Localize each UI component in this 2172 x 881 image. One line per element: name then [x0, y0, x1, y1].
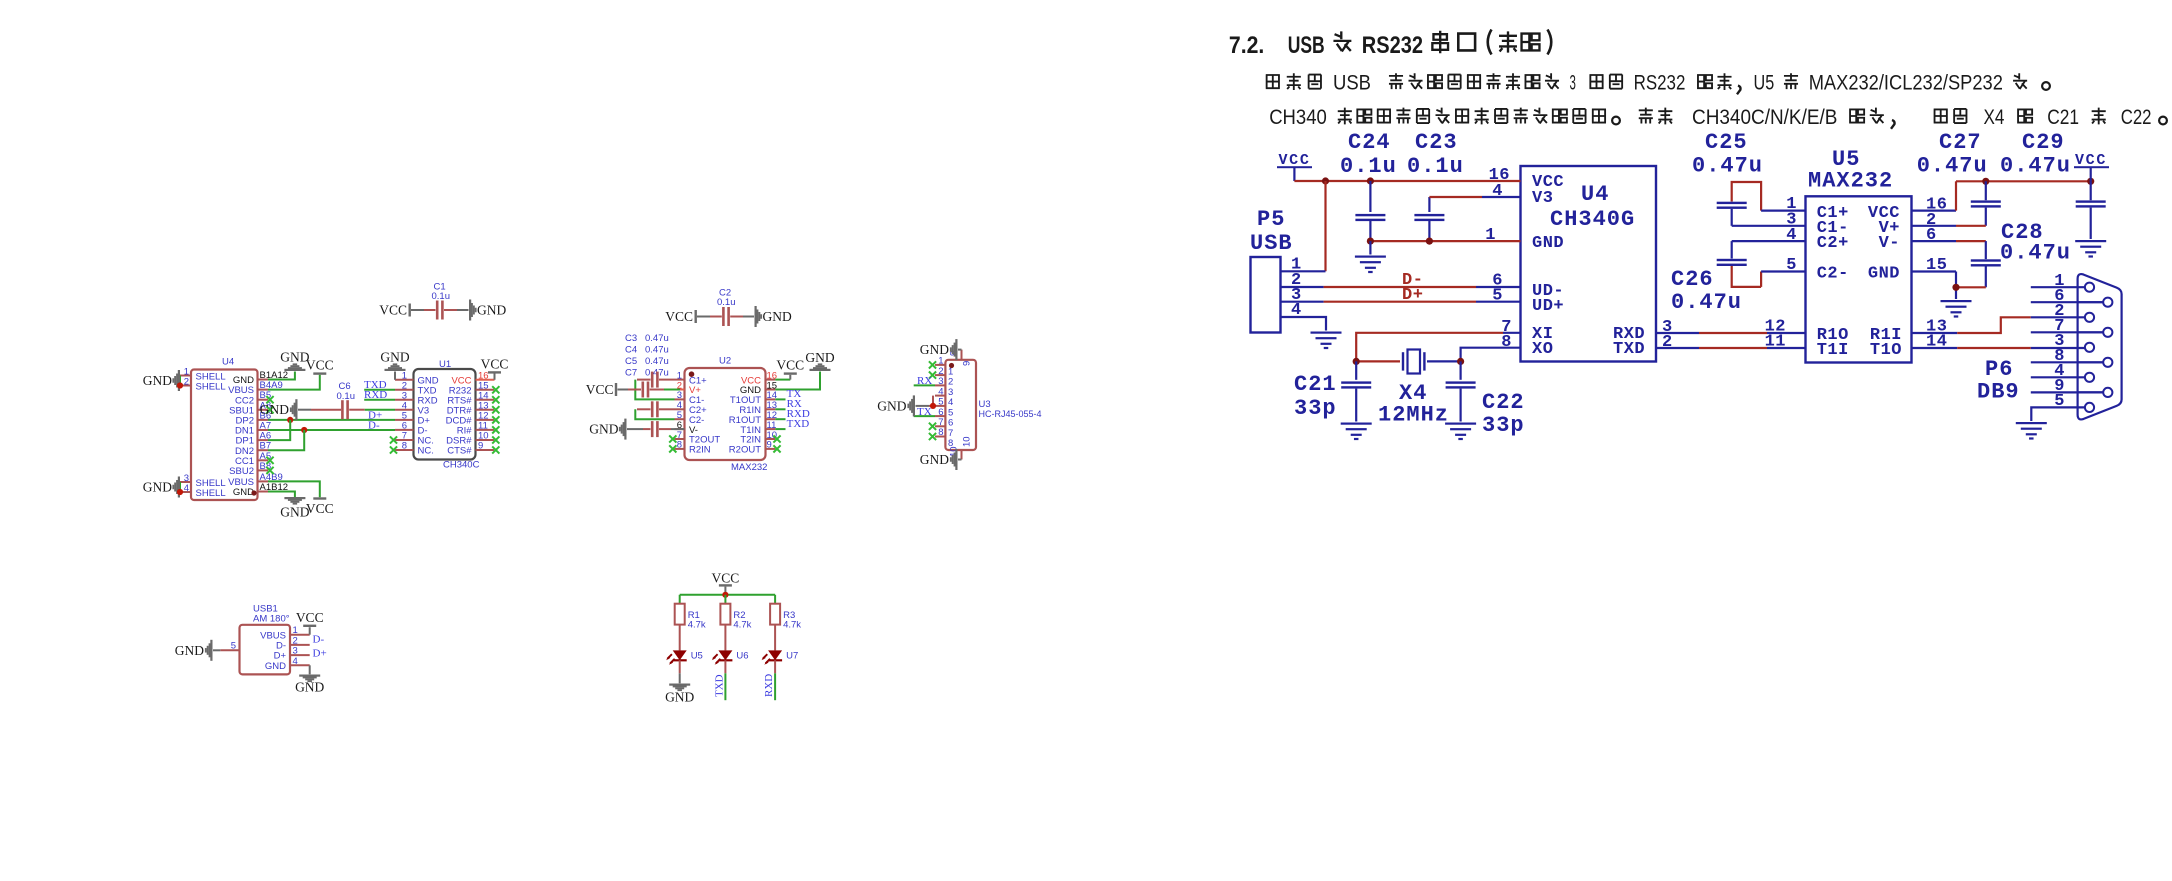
wire: [411, 309, 436, 311]
svg-text:GND: GND: [920, 452, 949, 467]
capacitor C2: [717, 288, 736, 327]
wire VBUS drop to P5 pin1: [1281, 181, 1326, 271]
wire TXD: [775, 428, 785, 430]
svg-text:VCC: VCC: [306, 358, 334, 373]
svg-text:GND: GND: [380, 350, 409, 365]
wire VCC rail: [680, 592, 775, 598]
svg-text:8: 8: [938, 427, 943, 438]
svg-text:X4: X4: [1984, 106, 2005, 129]
power flag VCC (LED rail): [712, 571, 740, 595]
wire TXD (LED U6): [724, 660, 726, 700]
svg-text:C3: C3: [625, 333, 637, 344]
svg-text:MAX232/ICL232/SP232: MAX232/ICL232/SP232: [1809, 72, 2003, 95]
wire XO pin8: [1461, 348, 1521, 362]
no-connect marks (U2): [669, 435, 780, 452]
svg-text:C23: C23: [1415, 130, 1458, 155]
LED U7: [762, 650, 799, 664]
svg-text:D-: D-: [313, 634, 325, 646]
ground (USB1 pin5): [175, 640, 221, 661]
svg-text:TXD: TXD: [787, 418, 810, 430]
net label RXD (vertical): [763, 674, 775, 697]
svg-text:MAX232: MAX232: [1808, 169, 1893, 194]
svg-text:GND: GND: [477, 303, 506, 318]
svg-text:T1O: T1O: [1870, 341, 1902, 360]
svg-text:C27: C27: [1939, 130, 1982, 155]
wire D+ net: [268, 417, 395, 440]
svg-text:R2IN: R2IN: [689, 445, 711, 456]
svg-text:GND: GND: [265, 661, 286, 672]
svg-text:2: 2: [184, 376, 189, 387]
wire U5 pin6 V-: [1912, 240, 1986, 242]
svg-text:D+: D+: [313, 648, 327, 660]
svg-text:R2OUT: R2OUT: [729, 445, 761, 456]
connector U3 HC-RJ45-055-4: [935, 350, 1042, 460]
net label TX: [917, 406, 932, 418]
svg-text:HC-RJ45-055-4: HC-RJ45-055-4: [979, 409, 1042, 419]
net label TXD: [787, 418, 810, 430]
power flag VCC (USB1): [296, 610, 324, 627]
power flag VCC (right): [2074, 152, 2109, 181]
svg-text:CH340: CH340: [1269, 106, 1327, 129]
svg-text:C5: C5: [625, 356, 637, 367]
net label D-: [368, 420, 380, 432]
svg-text:CH340C: CH340C: [443, 460, 480, 471]
wire: [679, 660, 681, 683]
svg-text:C2-: C2-: [1817, 265, 1849, 284]
ground (U3 pins 4,5): [877, 395, 936, 416]
svg-text:7.2.: 7.2.: [1229, 32, 1264, 59]
wire: [679, 595, 681, 604]
svg-text:C21: C21: [1294, 372, 1337, 397]
connector USB1 AM 180deg: [220, 604, 309, 675]
svg-text:0.47u: 0.47u: [1671, 290, 1742, 315]
svg-text:0.47u: 0.47u: [645, 345, 669, 356]
IC U2 MAX232: [675, 356, 778, 474]
document title 7.2 USB to RS232: [1229, 30, 1551, 60]
svg-text:TXD: TXD: [1613, 340, 1645, 359]
IC U4 CH340G: [1485, 166, 1672, 362]
svg-text:U2: U2: [719, 356, 731, 367]
wire: [635, 409, 674, 419]
svg-text:U1: U1: [439, 359, 451, 370]
wire TX (U3): [914, 415, 935, 417]
power flag VCC (C2): [665, 309, 697, 324]
svg-text:C26: C26: [1671, 267, 1714, 292]
ground (LED U5): [665, 684, 694, 705]
ground (U5): [1941, 300, 1972, 318]
no-connect marks (U3): [929, 361, 936, 440]
svg-text:U7: U7: [786, 651, 798, 662]
power flag VCC (left): [1277, 152, 1312, 181]
svg-text:VCC: VCC: [481, 356, 509, 371]
wire: [298, 409, 341, 411]
capacitor C29: [2000, 130, 2106, 258]
svg-text:C24: C24: [1348, 130, 1391, 155]
wire V3 pin4: [1429, 196, 1520, 198]
svg-text:VCC: VCC: [379, 303, 407, 318]
svg-text:DB9: DB9: [1977, 380, 2020, 405]
connector P5 USB: [1250, 207, 1302, 333]
svg-text:AM 180°: AM 180°: [253, 614, 290, 625]
ground (U4 A1B12): [280, 497, 309, 520]
wire T1O to DB9 pin3: [1912, 347, 2086, 349]
LED U5: [666, 650, 703, 664]
svg-text:4.7k: 4.7k: [688, 619, 706, 630]
capacitor C28: [1956, 220, 2071, 287]
ground (U3 pin9): [920, 339, 962, 360]
wire: [775, 375, 790, 380]
ground (U4 shell top): [143, 370, 183, 391]
svg-text:RX: RX: [917, 375, 932, 387]
svg-text:GND: GND: [665, 690, 694, 705]
svg-text:GND: GND: [805, 350, 834, 365]
svg-text:0.47u: 0.47u: [2000, 241, 2071, 266]
wire: [268, 481, 320, 497]
net label RX: [917, 375, 932, 387]
net label TXD: [364, 379, 387, 391]
net label D+: [368, 409, 382, 421]
svg-text:V-: V-: [1879, 234, 1900, 253]
power flag VCC (U4 VBUS top): [306, 358, 334, 375]
svg-text:XO: XO: [1532, 340, 1553, 359]
svg-text:GND: GND: [1532, 234, 1564, 253]
svg-text:USB: USB: [1250, 231, 1293, 256]
svg-text:VCC: VCC: [712, 571, 740, 586]
net label TX: [787, 388, 802, 400]
svg-text:0.47u: 0.47u: [645, 333, 669, 344]
capacitor C4 (V+): [618, 382, 685, 398]
ground (U2 V-): [589, 419, 626, 440]
svg-text:U4: U4: [222, 357, 234, 368]
svg-text:0.1u: 0.1u: [1340, 154, 1397, 179]
svg-text:4: 4: [1492, 182, 1503, 201]
power flag VCC (U1): [481, 356, 509, 373]
svg-text:4.7k: 4.7k: [733, 619, 751, 630]
svg-text:GND: GND: [280, 505, 309, 520]
capacitor C1: [432, 282, 451, 320]
svg-text:10: 10: [962, 436, 973, 447]
capacitor C7 (V-): [627, 421, 685, 437]
wire VCC rail right: [1956, 178, 2094, 185]
svg-text:P6: P6: [1985, 357, 2013, 382]
svg-text:11: 11: [1765, 333, 1786, 352]
svg-text:T1I: T1I: [1817, 341, 1849, 360]
svg-text:2: 2: [1662, 333, 1673, 352]
wire TXD to U5 pin11: [1656, 347, 1806, 349]
net label D+: [1402, 286, 1423, 305]
svg-text:U5: U5: [691, 651, 703, 662]
capacitor values C3 C4 C5 C7: [625, 333, 669, 379]
svg-text:3: 3: [1570, 72, 1576, 95]
wire VCC rail to pin16: [1294, 177, 1520, 184]
resistor R1: [675, 604, 706, 631]
ground (C2): [755, 306, 792, 327]
ground (U4 shell bottom): [143, 477, 183, 498]
capacitor C26: [1671, 241, 1806, 315]
wire: [697, 316, 722, 318]
wire: [268, 492, 295, 498]
svg-text:CTS#: CTS#: [447, 446, 472, 457]
wire U5 pin15 GND: [1912, 272, 1960, 300]
wire TX: [775, 398, 785, 400]
wire: [774, 625, 776, 651]
wire R1I to DB9 pin2: [1912, 317, 2086, 333]
resistor R3: [770, 604, 801, 631]
svg-text:4: 4: [184, 483, 189, 494]
svg-text:8: 8: [1501, 333, 1512, 352]
svg-text:D+: D+: [1402, 286, 1423, 305]
wire: [309, 665, 311, 674]
ground (USB1 pin4): [295, 675, 324, 695]
wire RX: [775, 408, 785, 410]
net label D-: [1402, 271, 1423, 290]
wire: [268, 372, 295, 380]
svg-text:0.1u: 0.1u: [432, 291, 451, 302]
wire RXD to U5 pin12: [1656, 332, 1806, 334]
svg-text:GND: GND: [1868, 265, 1900, 284]
ground (P5): [1311, 332, 1342, 350]
power flag VCC (U2): [776, 358, 804, 375]
capacitor C3 (C1+/C1-): [637, 372, 675, 388]
connector U4 (USB type-C): [180, 357, 288, 501]
svg-text:GND: GND: [260, 402, 289, 417]
svg-text:GND: GND: [589, 422, 618, 437]
svg-text:VCC: VCC: [776, 358, 804, 373]
svg-text:GND: GND: [920, 342, 949, 357]
wire: [444, 309, 469, 311]
svg-text:MAX232: MAX232: [731, 462, 767, 473]
svg-text:RXD: RXD: [763, 674, 775, 697]
svg-text:RXD: RXD: [364, 389, 387, 401]
ground (U3 pin10): [920, 449, 962, 470]
svg-text:C29: C29: [2022, 130, 2065, 155]
svg-text:0.1u: 0.1u: [717, 297, 736, 308]
resistor R2: [720, 604, 751, 631]
power flag VCC (C1): [379, 303, 411, 318]
svg-text:CH340C/N/K/E/B: CH340C/N/K/E/B: [1692, 106, 1837, 129]
svg-text:0.47u: 0.47u: [1692, 154, 1763, 179]
ground (U2 GND): [805, 350, 834, 371]
wire VCC pin16: [476, 374, 495, 380]
svg-text:GND: GND: [143, 480, 172, 495]
svg-text:USB: USB: [1333, 72, 1371, 95]
wire RX (U3): [914, 384, 935, 386]
svg-text:C22: C22: [1482, 390, 1525, 415]
svg-text:C2+: C2+: [1817, 234, 1849, 253]
wire D- (P5 pin2 to UD-): [1281, 286, 1521, 288]
wire U5 pin16 to VCC rail: [1912, 181, 1957, 210]
capacitor C5 (C2+/C2-): [637, 401, 675, 417]
svg-text:33p: 33p: [1294, 396, 1337, 421]
ground (C1): [469, 300, 506, 321]
wire TXD: [364, 389, 395, 391]
wire: [309, 627, 311, 635]
svg-text:0.47u: 0.47u: [645, 356, 669, 367]
svg-text:VCC: VCC: [296, 610, 324, 625]
svg-text:GND: GND: [175, 643, 204, 658]
svg-text:0.47u: 0.47u: [2000, 154, 2071, 179]
svg-text:C22: C22: [2121, 106, 2152, 129]
svg-text:0.1u: 0.1u: [1407, 154, 1464, 179]
svg-text:U5: U5: [1754, 72, 1775, 95]
net label RX: [787, 398, 802, 410]
svg-text:0.47u: 0.47u: [1917, 154, 1988, 179]
wire: [730, 316, 754, 318]
svg-text:GND: GND: [295, 680, 324, 695]
wire: [349, 409, 395, 411]
wire XI pin7: [1356, 333, 1520, 362]
svg-text:C4: C4: [625, 345, 637, 356]
capacitor C23: [1407, 130, 1464, 241]
power flag VCC (U2 V+): [586, 382, 617, 397]
svg-text:33p: 33p: [1482, 413, 1525, 438]
IC U5 MAX232: [1786, 147, 1947, 363]
ground (C24/C23): [1355, 241, 1386, 273]
capacitor C25: [1692, 130, 1806, 226]
wire RXD (LED U7): [774, 660, 776, 700]
capacitor C21 33p: [1294, 361, 1372, 440]
wire DB9 pin5 to ground: [2031, 407, 2085, 421]
svg-text:TX: TX: [917, 406, 932, 418]
wire U5 pin2 V+: [1912, 225, 1986, 227]
svg-text:GND: GND: [763, 309, 792, 324]
svg-text:TXD: TXD: [714, 674, 726, 697]
svg-text:V3: V3: [1532, 189, 1553, 208]
svg-text:D-: D-: [368, 420, 380, 432]
svg-text:C25: C25: [1705, 130, 1748, 155]
net label D- (USB1): [313, 634, 325, 646]
IC U1 CH340C: [395, 359, 494, 471]
svg-text:SBU2: SBU2: [229, 466, 254, 477]
svg-text:U6: U6: [736, 651, 748, 662]
LED U6: [712, 650, 749, 664]
svg-text:9: 9: [962, 361, 973, 366]
wire D- net: [268, 427, 395, 450]
svg-text:GND: GND: [233, 487, 254, 498]
wire: [268, 375, 320, 390]
wire: [679, 625, 681, 651]
net label D+ (USB1): [313, 648, 327, 660]
net label RXD: [787, 408, 810, 420]
svg-text:VCC: VCC: [586, 382, 614, 397]
wire: [724, 625, 726, 651]
connector P6 DB9: [1977, 272, 2122, 419]
svg-text:C7: C7: [625, 368, 637, 379]
svg-text:SHELL: SHELL: [196, 488, 226, 499]
svg-text:SHELL: SHELL: [196, 381, 226, 392]
svg-text:VCC: VCC: [665, 309, 693, 324]
svg-text:USB: USB: [1288, 32, 1325, 59]
svg-text:5: 5: [231, 641, 236, 652]
svg-text:0.1u: 0.1u: [337, 391, 356, 402]
net label RXD: [364, 389, 387, 401]
svg-text:RS232: RS232: [1362, 32, 1423, 59]
capacitor C24: [1340, 130, 1397, 241]
document paragraph line 1: [1266, 72, 2050, 95]
wire: [775, 372, 820, 390]
wire: [635, 380, 674, 400]
svg-text:CH340G: CH340G: [1550, 207, 1635, 232]
wire: [774, 595, 776, 604]
svg-text:U4: U4: [1581, 182, 1609, 207]
no-connect marks (U4): [266, 396, 273, 474]
svg-text:GND: GND: [877, 398, 906, 413]
wire D+ (P5 pin3 to UD+): [1281, 301, 1521, 303]
power flag VCC (U4 VBUS bottom): [306, 497, 334, 516]
net label TXD (vertical): [714, 674, 726, 697]
svg-text:RS232: RS232: [1634, 72, 1686, 95]
svg-text:GND: GND: [143, 373, 172, 388]
svg-text:C21: C21: [2047, 106, 2079, 129]
svg-text:VCC: VCC: [306, 501, 334, 516]
ground (U1 pin1): [380, 350, 409, 380]
capacitor C6: [337, 381, 356, 419]
capacitor C27: [1917, 130, 2001, 226]
document paragraph line 2: [1269, 106, 2167, 129]
svg-text:UD+: UD+: [1532, 297, 1564, 316]
no-connect marks (U1): [390, 386, 500, 453]
svg-text:NC.: NC.: [418, 446, 434, 457]
ground (DB9): [2016, 422, 2047, 440]
crystal X4 12MHz: [1353, 350, 1465, 428]
svg-text:4.7k: 4.7k: [783, 619, 801, 630]
ground (C6): [260, 399, 298, 420]
wire P5 pin4 to ground: [1281, 317, 1327, 331]
wire RXD: [775, 418, 785, 420]
capacitor C22 33p: [1445, 361, 1525, 440]
ground (U4 B1A12): [280, 350, 309, 372]
svg-text:12MHz: 12MHz: [1378, 403, 1449, 428]
wire GND row pin1: [1367, 238, 1521, 245]
wire RXD: [364, 399, 395, 401]
wire: [724, 595, 726, 604]
svg-text:P5: P5: [1257, 207, 1285, 232]
